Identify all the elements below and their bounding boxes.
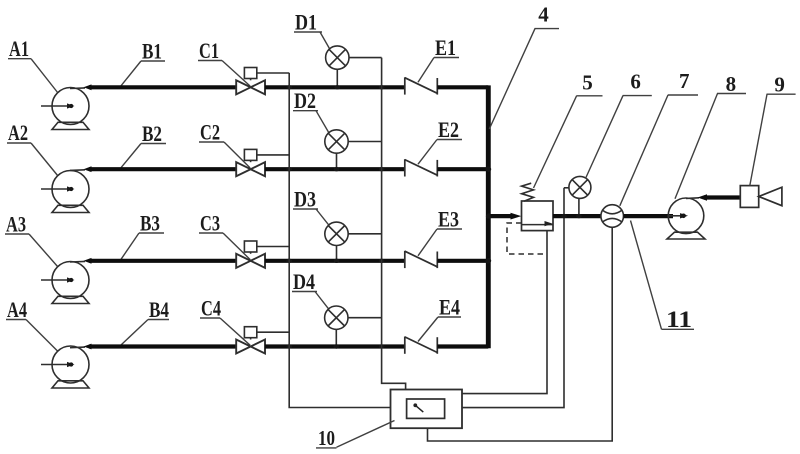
svg-text:E4: E4 [439, 295, 460, 320]
wire meter7 to controller [428, 227, 613, 441]
pump 8 [667, 198, 705, 239]
label A3 [5, 212, 58, 268]
wire pipe 2 mid [265, 167, 405, 171]
label B3 [121, 211, 164, 260]
svg-text:8: 8 [726, 72, 737, 96]
node manifold junctions [485, 167, 491, 264]
wire B1 pipe [84, 84, 237, 90]
svg-text:11: 11 [666, 307, 692, 332]
svg-text:6: 6 [630, 70, 641, 94]
label E1 [418, 35, 459, 82]
svg-text:C1: C1 [199, 38, 219, 63]
wire C3 actuator [257, 246, 289, 248]
wire C4 actuator [257, 331, 289, 333]
label B4 [121, 297, 169, 345]
manifold pipe 4 [437, 85, 488, 348]
gauge D1 [326, 46, 382, 87]
svg-text:E2: E2 [438, 117, 459, 142]
svg-text:D2: D2 [294, 88, 316, 113]
wire main output [491, 213, 522, 220]
node row1 junctions [287, 85, 385, 89]
node row4 junctions [287, 344, 385, 348]
label A2 [7, 120, 58, 176]
svg-text:B3: B3 [140, 211, 160, 236]
label 6 [586, 70, 652, 179]
label D3 [293, 187, 329, 226]
wire D-bus to controller [382, 58, 406, 390]
wire C2 actuator [257, 154, 289, 156]
wire pipe 3 out [437, 259, 487, 263]
check valve E2 [405, 159, 438, 176]
svg-text:B2: B2 [142, 121, 162, 146]
svg-text:B1: B1 [142, 39, 162, 64]
pump A1 [41, 88, 89, 130]
svg-text:D3: D3 [294, 187, 316, 212]
regulator 5 [522, 183, 554, 230]
label E2 [418, 117, 462, 164]
pump A4 [41, 346, 89, 388]
valve C3 [236, 241, 265, 268]
svg-text:E3: E3 [438, 207, 459, 232]
svg-text:C4: C4 [201, 296, 221, 321]
pump A2 [41, 170, 89, 213]
label 7 [620, 69, 698, 206]
label 8 [675, 72, 746, 199]
wire pipe after 5 [553, 214, 601, 218]
label B1 [121, 39, 165, 86]
gauge D2 [325, 130, 382, 169]
wire B3 pipe [84, 258, 237, 264]
svg-text:A2: A2 [8, 120, 28, 145]
gauge 6 [569, 176, 591, 216]
nozzle 9 [740, 186, 782, 208]
label D2 [293, 88, 329, 133]
flow meter 7 [601, 205, 624, 228]
svg-text:B4: B4 [149, 297, 169, 322]
label 10 [316, 421, 395, 451]
label E3 [418, 207, 462, 256]
svg-text:A3: A3 [6, 212, 26, 237]
label D4 [292, 269, 329, 309]
label C2 [199, 120, 250, 169]
svg-text:A1: A1 [9, 36, 29, 61]
label D1 [294, 10, 330, 50]
wire pilot dashed [507, 223, 545, 254]
svg-text:C3: C3 [200, 211, 220, 236]
valve C2 [236, 149, 265, 176]
gauge D4 [325, 306, 382, 347]
valve C1 [236, 68, 265, 95]
wire pipe pump8 out [698, 194, 741, 201]
label A1 [8, 36, 58, 93]
pump A3 [41, 261, 89, 303]
label A4 [6, 297, 58, 352]
label C3 [199, 211, 250, 260]
svg-text:C2: C2 [200, 120, 220, 145]
wire B2 pipe [84, 166, 237, 172]
wire pipe 3 mid [265, 259, 405, 263]
node row2 junctions [287, 167, 385, 171]
label C1 [198, 38, 250, 86]
svg-text:9: 9 [774, 72, 785, 96]
node row3 junctions [287, 259, 385, 263]
wire pipe 4 mid [265, 344, 405, 348]
check valve E3 [405, 251, 438, 268]
wire pipe 2 out [437, 167, 487, 171]
svg-text:A4: A4 [7, 297, 27, 322]
label C4 [200, 296, 250, 346]
wire C-bus to controller [289, 73, 390, 408]
svg-text:5: 5 [582, 71, 593, 95]
wire C1 actuator [257, 72, 289, 74]
wire gauge6 to controller [462, 188, 569, 408]
check valve E4 [405, 337, 438, 354]
svg-text:7: 7 [679, 69, 690, 93]
valve C4 [236, 327, 265, 354]
wire pipe meter to pump8 [624, 214, 674, 218]
check valve E1 [405, 77, 438, 94]
wire pipe 1 mid [265, 85, 405, 89]
svg-text:D4: D4 [293, 269, 315, 294]
wire regulator5 to controller [462, 231, 547, 394]
svg-text:10: 10 [318, 426, 335, 450]
label B2 [121, 121, 166, 168]
svg-text:E1: E1 [435, 35, 456, 60]
label 11 [631, 221, 695, 333]
label E4 [418, 295, 461, 342]
wire B4 pipe [84, 344, 237, 350]
gauge D3 [325, 222, 382, 261]
label 4 [489, 3, 559, 129]
svg-text:4: 4 [538, 3, 549, 27]
node main line junctions [561, 214, 581, 218]
controller 10 [391, 390, 463, 429]
label 9 [750, 72, 796, 185]
svg-text:D1: D1 [295, 10, 317, 35]
label 5 [534, 71, 603, 189]
